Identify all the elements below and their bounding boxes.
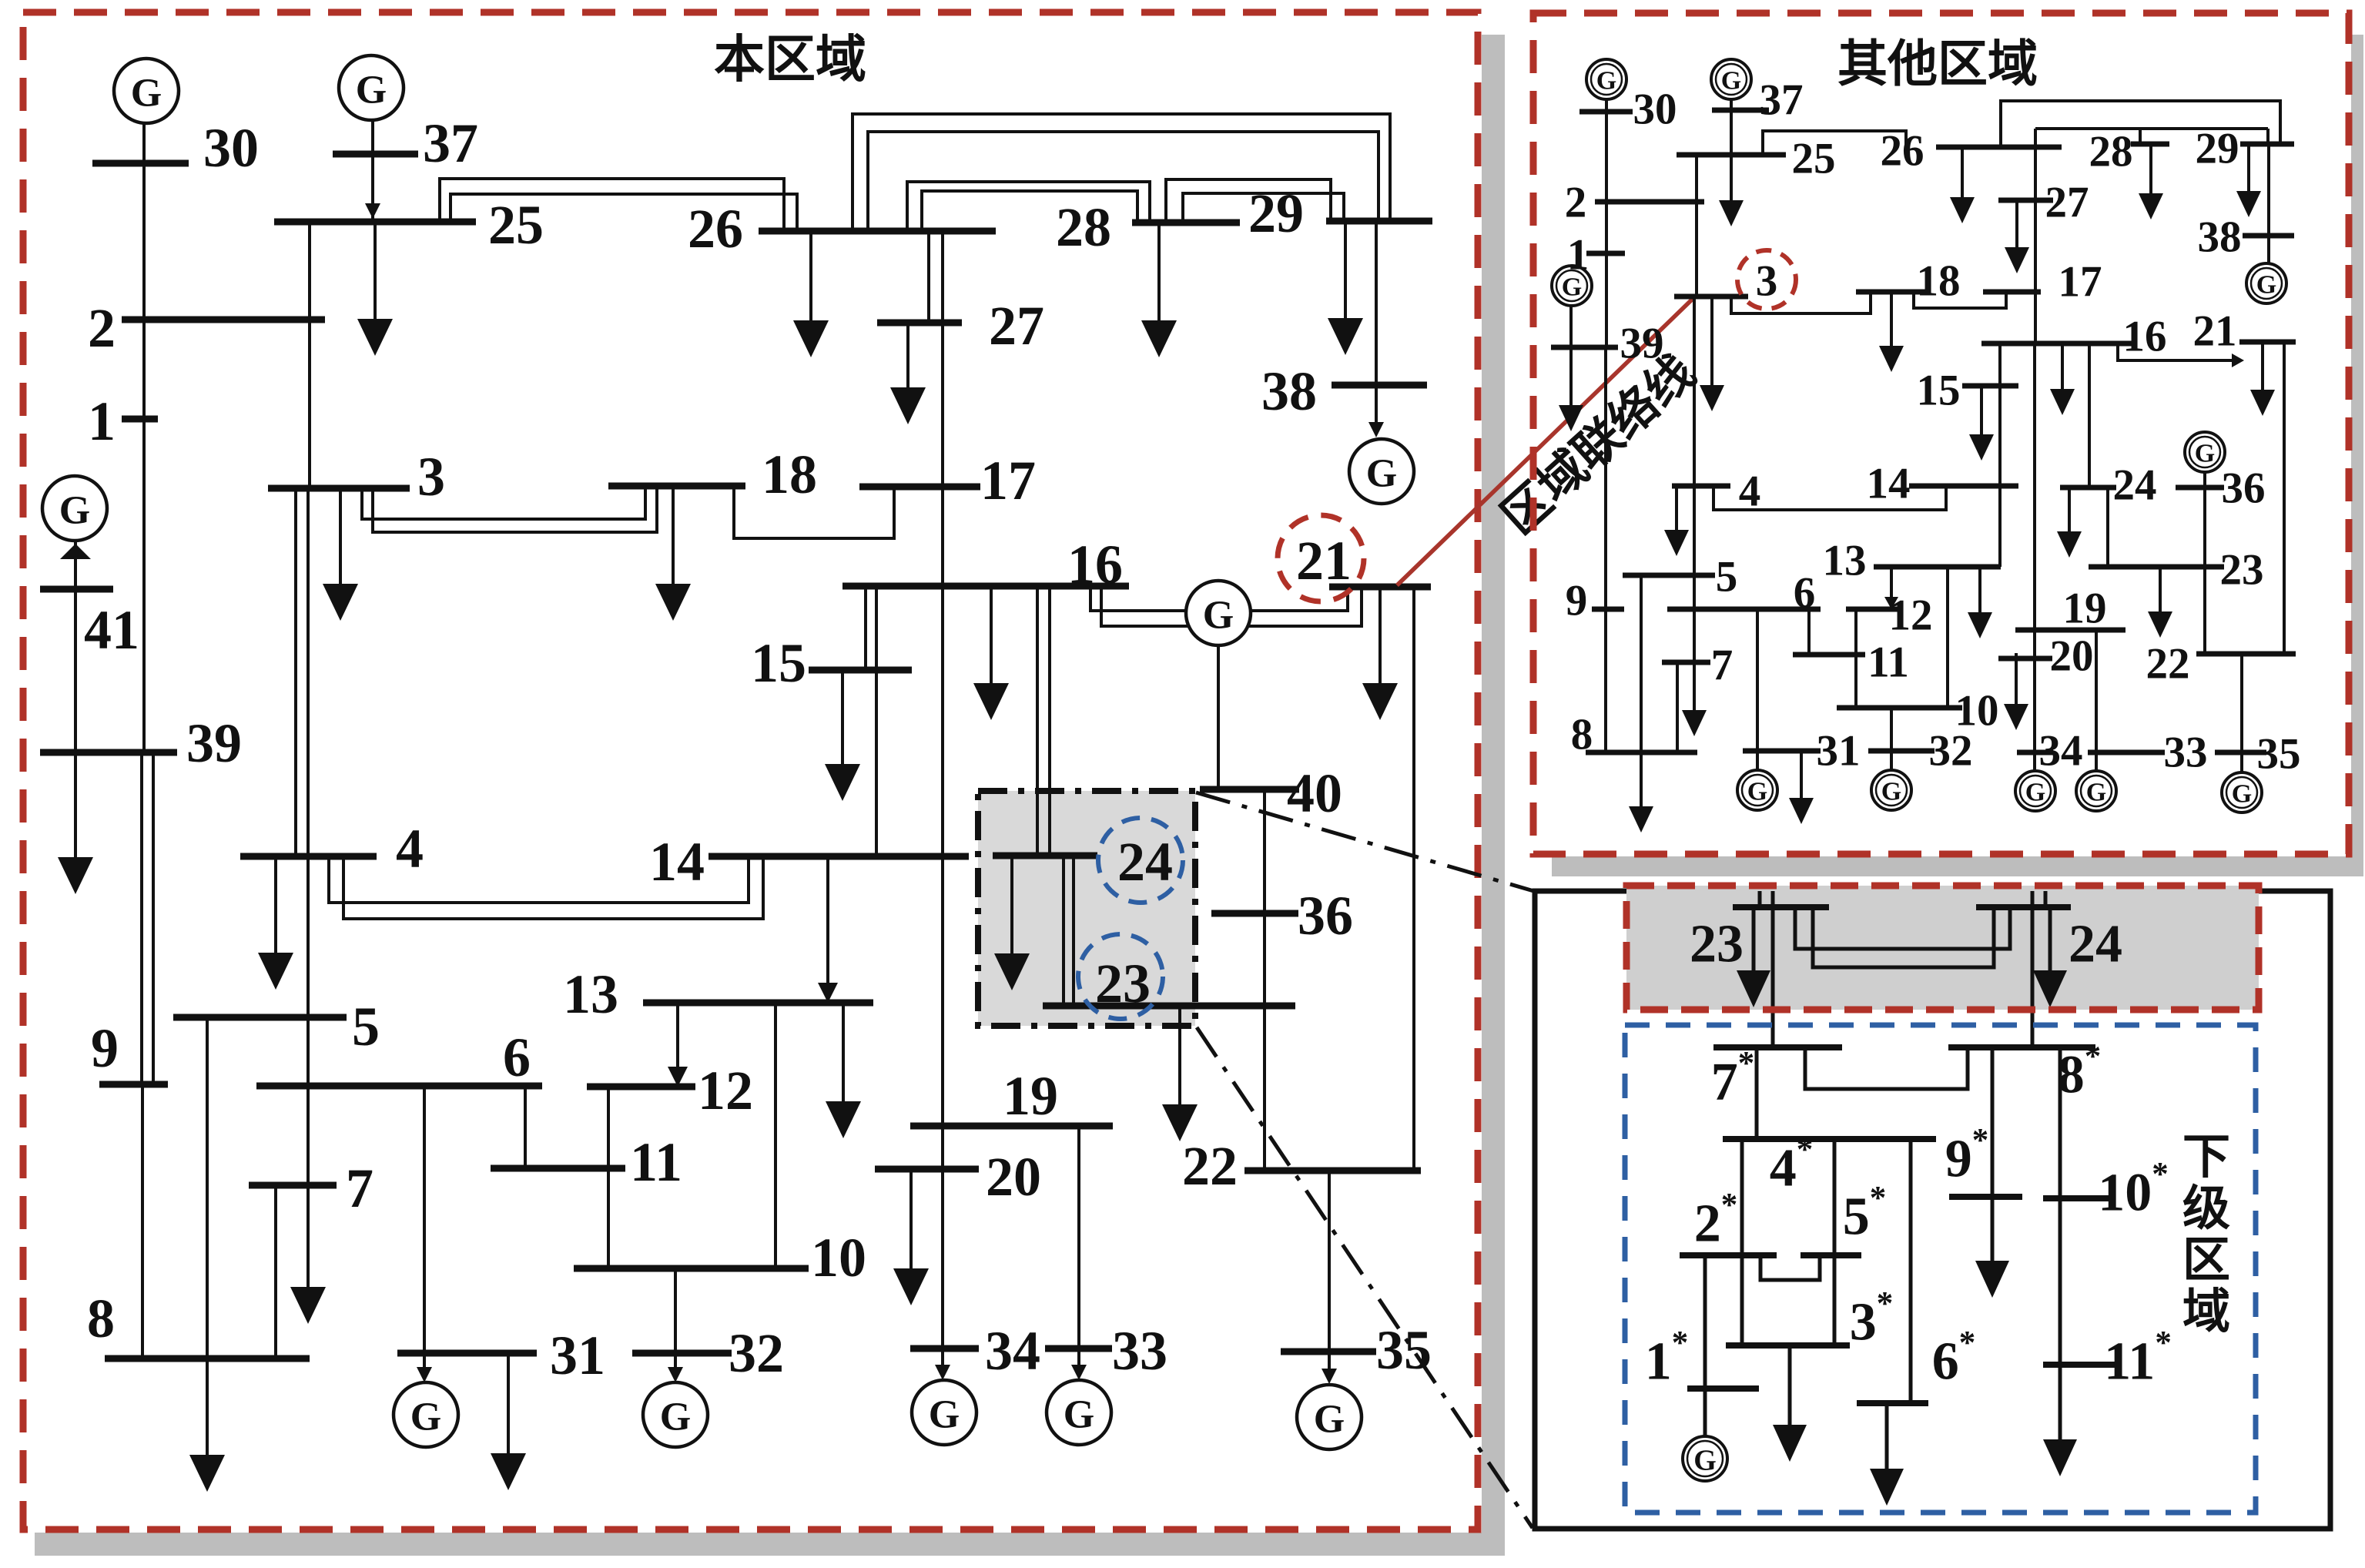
gray band red dashed border bbox=[1626, 886, 2259, 1010]
wire 25-26 circuit a bbox=[440, 179, 784, 231]
svg-text:36: 36 bbox=[1298, 885, 1353, 946]
bus r2 bbox=[1595, 199, 1704, 205]
wire r 24-23 bbox=[2106, 487, 2109, 567]
wire b 2*-5* link bbox=[1760, 1255, 1820, 1280]
red dashed circle around node 21 bbox=[1278, 515, 1364, 601]
load arrow r bus39 load bbox=[1559, 389, 1583, 431]
arrowhead into bus25 from 37 bbox=[365, 203, 380, 219]
bus r39 bbox=[1551, 345, 1618, 350]
arrowhead r arrow 16-21 bbox=[2232, 353, 2244, 367]
svg-text:18: 18 bbox=[1917, 257, 1961, 306]
load arrow b bus23 load bbox=[1737, 907, 1770, 1007]
svg-text:40: 40 bbox=[1287, 762, 1342, 824]
bus 8* bbox=[1948, 1044, 2095, 1050]
svg-text:41: 41 bbox=[84, 599, 139, 661]
load arrow bus13 load bbox=[826, 1003, 861, 1138]
wire 16-24 circuit a bbox=[1036, 586, 1039, 856]
blue dashed border 下级区域 bbox=[1625, 1025, 2256, 1513]
wire b 8*-9* bbox=[1991, 1047, 1995, 1197]
projection line upper (gray box to sub panel) bbox=[1196, 792, 1536, 892]
bus 7* bbox=[1713, 1044, 1842, 1050]
svg-text:38: 38 bbox=[1261, 360, 1317, 422]
svg-text:30: 30 bbox=[1633, 85, 1677, 134]
generator rG30 bbox=[1586, 59, 1626, 99]
load arrow r bus16 load bbox=[2050, 343, 2075, 415]
red dashed circle around node 3 (other region) bbox=[1737, 250, 1796, 309]
bus r27 bbox=[1998, 198, 2053, 203]
gray sub-region box dash-dot border bbox=[978, 791, 1195, 1026]
wire r 25-2-3 spine bbox=[1695, 155, 1698, 297]
svg-text:4: 4 bbox=[396, 818, 424, 879]
wire 28-29 circuit a bbox=[1166, 179, 1331, 223]
load arrow r bus15 load bbox=[1969, 386, 1994, 461]
svg-text:33: 33 bbox=[2164, 729, 2208, 777]
svg-text:37: 37 bbox=[423, 112, 478, 174]
wire 41-39 and load of 39 bbox=[74, 540, 77, 863]
load arrow r bus8 load bbox=[1629, 754, 1653, 833]
load arrow r bus26 load bbox=[1950, 147, 1975, 223]
bus 4* bbox=[1723, 1136, 1936, 1142]
bus 24 bbox=[993, 853, 1097, 859]
svg-text:24: 24 bbox=[2069, 915, 2122, 974]
wire b 8*-10*-11* bbox=[2058, 1047, 2062, 1365]
bus r32 bbox=[1868, 749, 1935, 754]
svg-text:12: 12 bbox=[698, 1060, 753, 1121]
svg-text:31: 31 bbox=[550, 1325, 605, 1386]
generator G35 bbox=[1297, 1385, 1362, 1449]
wire r 25-26 link bbox=[1763, 131, 1906, 155]
svg-text:37: 37 bbox=[1760, 76, 1804, 125]
bus r15 bbox=[1962, 384, 2018, 389]
bus 10* bbox=[2043, 1195, 2115, 1201]
svg-text:16: 16 bbox=[1067, 534, 1123, 595]
bus 2 bbox=[122, 317, 325, 323]
load arrow bus7 load bbox=[290, 1185, 326, 1324]
svg-text:35: 35 bbox=[2257, 730, 2301, 779]
svg-text:34: 34 bbox=[2039, 727, 2083, 776]
bus r24 bbox=[2060, 485, 2116, 491]
generator rG36 bbox=[2185, 432, 2225, 472]
svg-text:29: 29 bbox=[1248, 183, 1304, 244]
load arrow bus29 load bbox=[1328, 221, 1363, 355]
svg-text:10: 10 bbox=[811, 1227, 866, 1288]
wire 4-14 circuit b bbox=[343, 856, 763, 919]
bus 13 bbox=[643, 1000, 873, 1007]
bus r31 bbox=[1743, 749, 1821, 754]
svg-text:20: 20 bbox=[986, 1146, 1041, 1208]
bus 14 bbox=[708, 853, 969, 860]
wire 12-11-10 bbox=[607, 1087, 610, 1268]
load arrow b 9* load bbox=[1975, 1197, 2009, 1298]
wire r 4-14 link bbox=[1713, 486, 1946, 510]
wire 18-17 bbox=[734, 486, 894, 538]
svg-text:其他区域: 其他区域 bbox=[1837, 37, 2038, 92]
wire r 3-18 bbox=[1731, 292, 1871, 313]
svg-text:G: G bbox=[356, 69, 387, 112]
wire b 24 stub up a bbox=[2044, 891, 2048, 907]
wire b 7*-8* link bbox=[1805, 1047, 1968, 1089]
svg-text:15: 15 bbox=[751, 632, 806, 694]
svg-text:G: G bbox=[1693, 1444, 1717, 1476]
bus 31 bbox=[397, 1350, 537, 1357]
wire b 4*-3* left bbox=[1740, 1139, 1744, 1345]
bus 9* bbox=[1949, 1194, 2022, 1200]
svg-text:G: G bbox=[1366, 452, 1397, 496]
bus 20 bbox=[875, 1166, 979, 1173]
load arrow r bus18 load bbox=[1879, 292, 1904, 372]
wire r G36-36-23-22 spine bbox=[2203, 471, 2206, 654]
wire r 16-24 bbox=[2088, 343, 2091, 487]
wire 28-29 circuit b bbox=[1183, 193, 1344, 223]
svg-text:11: 11 bbox=[630, 1131, 682, 1193]
load arrow r bus4 load bbox=[1664, 486, 1689, 556]
bus 5* bbox=[1801, 1252, 1861, 1258]
svg-text:8: 8 bbox=[87, 1288, 115, 1349]
wire r 39-9-8 spine bbox=[1604, 347, 1607, 754]
wire r 7-8 bbox=[1676, 662, 1679, 754]
bus 7 bbox=[249, 1182, 337, 1189]
generator rG32 bbox=[1871, 770, 1911, 810]
svg-text:39: 39 bbox=[1620, 320, 1664, 368]
wire r 13-12 bbox=[1890, 567, 1893, 605]
bus 12 bbox=[587, 1084, 695, 1091]
bus 2* bbox=[1680, 1252, 1777, 1258]
bus 1* bbox=[1687, 1385, 1759, 1392]
projection line lower (gray box to sub panel) bbox=[1197, 1027, 1533, 1528]
arrowhead 14-13 into 13 bbox=[818, 983, 838, 1003]
wire 4-14 circuit a bbox=[329, 856, 749, 903]
arrowhead r arrow 13-12 bbox=[1884, 597, 1898, 609]
svg-text:24: 24 bbox=[2113, 461, 2157, 510]
wire r 6-31 into G31 bbox=[1756, 609, 1759, 770]
generator G33 bbox=[1047, 1380, 1111, 1445]
svg-text:G: G bbox=[59, 489, 90, 533]
load arrow b 3* load bbox=[1773, 1345, 1807, 1462]
wire 26-28 circuit a bbox=[907, 182, 1150, 231]
svg-text:27: 27 bbox=[2045, 179, 2089, 227]
svg-text:19: 19 bbox=[1003, 1065, 1058, 1127]
arrowhead 13-12 into 12 bbox=[668, 1067, 688, 1087]
svg-text:36: 36 bbox=[2222, 464, 2266, 513]
bus 18 bbox=[608, 483, 745, 490]
load arrow bus24 load bbox=[994, 856, 1030, 990]
svg-text:G: G bbox=[2025, 779, 2045, 807]
svg-text:5: 5 bbox=[352, 996, 380, 1057]
wire 3-4 circuit b and 4-5-6-7 bbox=[307, 488, 310, 1185]
generator rG39 bbox=[1552, 266, 1592, 306]
svg-text:21: 21 bbox=[2193, 307, 2237, 356]
arrowhead up into G41 bbox=[60, 544, 91, 559]
svg-text:7: 7 bbox=[1711, 642, 1734, 690]
wire r 28 stub bbox=[2139, 129, 2142, 144]
svg-text:20: 20 bbox=[2050, 632, 2094, 681]
generator rG33 bbox=[2076, 771, 2116, 811]
bus 29 bbox=[1326, 218, 1432, 225]
svg-text:6: 6 bbox=[503, 1027, 531, 1088]
wire r 16-19-20-34 into G34 bbox=[2033, 343, 2036, 771]
svg-text:G: G bbox=[410, 1395, 441, 1439]
bus r37 bbox=[1712, 108, 1769, 113]
bus r33 bbox=[2088, 750, 2165, 756]
bus 34 bbox=[910, 1345, 979, 1352]
bus 11 bbox=[491, 1165, 625, 1172]
wire r 19-33 into G33 bbox=[2095, 630, 2098, 771]
wire b 4*-5*-3* bbox=[1833, 1139, 1837, 1345]
wire 3-4 circuit a bbox=[294, 488, 297, 856]
svg-text:23: 23 bbox=[2220, 546, 2264, 595]
wire b 23-24 circuit a bbox=[1795, 907, 2010, 949]
bus 1 bbox=[122, 416, 158, 423]
bus r3 bbox=[1674, 294, 1748, 300]
wire r 26-27-17-16 spine bbox=[2034, 129, 2037, 343]
wire b 24-8* bbox=[2031, 891, 2035, 1047]
generator G31 bbox=[394, 1382, 458, 1447]
bus 21 bbox=[1329, 584, 1431, 591]
wire r 13-10 bbox=[1946, 567, 1949, 708]
load arrow r bus29 load bbox=[2236, 144, 2261, 217]
bus 30 bbox=[92, 160, 189, 167]
bus 17 bbox=[859, 484, 980, 491]
wire r top line b horizontal bbox=[2035, 127, 2268, 130]
wire 39-9 circuit b bbox=[152, 752, 155, 1084]
load arrow bus21 load bbox=[1362, 587, 1398, 720]
load arrow r bus31 load bbox=[1789, 751, 1814, 824]
bus 15 bbox=[809, 667, 912, 674]
svg-text:19: 19 bbox=[2063, 585, 2107, 633]
wire 25-2-3 bbox=[308, 222, 311, 488]
svg-text:22: 22 bbox=[1182, 1135, 1238, 1197]
generator G30 bbox=[114, 59, 179, 123]
wire 22-35 into G35 bbox=[1328, 1171, 1331, 1380]
svg-text:G: G bbox=[1747, 778, 1767, 806]
bus r18 bbox=[1856, 290, 1925, 295]
svg-text:G: G bbox=[2195, 440, 2215, 468]
bus 16 bbox=[842, 583, 1129, 590]
generator rG37 bbox=[1711, 59, 1751, 99]
wire 3-18 circuit b bbox=[373, 486, 657, 532]
wire 26-27 circuit b and 27-17-16 bbox=[941, 231, 944, 586]
load arrow r bus20 load bbox=[2004, 653, 2028, 730]
bus r9 bbox=[1592, 607, 1624, 612]
wire 26-28 circuit b bbox=[922, 191, 1137, 231]
generator rG34 bbox=[2015, 771, 2055, 811]
wire 26-29 circuit a bbox=[853, 114, 1390, 231]
svg-text:G: G bbox=[660, 1395, 691, 1439]
svg-text:24: 24 bbox=[1117, 831, 1173, 893]
arrowhead into G38 bbox=[1368, 422, 1384, 437]
wire 26-29 circuit b bbox=[868, 132, 1378, 231]
bus r19 bbox=[2015, 628, 2125, 633]
bus 32 bbox=[632, 1350, 732, 1357]
svg-text:2: 2 bbox=[1565, 179, 1587, 227]
svg-text:34: 34 bbox=[985, 1320, 1040, 1382]
bus r17 bbox=[1983, 290, 2041, 295]
bus 3 bbox=[268, 485, 410, 492]
wire 14-13 bbox=[826, 856, 829, 1000]
blue dashed circle around node 23 bbox=[1078, 934, 1163, 1019]
load arrow bus3 load bbox=[323, 488, 358, 621]
svg-text:3: 3 bbox=[417, 446, 445, 508]
load arrow bus15 load bbox=[825, 670, 860, 801]
load arrow r bus24 load bbox=[2057, 487, 2082, 558]
generator G37 bbox=[339, 55, 404, 120]
wire 16-21 circuit a bbox=[1090, 586, 1348, 611]
wire 13-10 bbox=[774, 1003, 777, 1268]
wire r 18-17 bbox=[1914, 292, 2006, 308]
left panel red dashed border 本区域 bbox=[23, 12, 1478, 1529]
load arrow b 6* load bbox=[1870, 1403, 1904, 1506]
svg-text:3: 3 bbox=[1756, 257, 1778, 306]
svg-text:5: 5 bbox=[1716, 553, 1738, 601]
svg-text:G: G bbox=[1596, 67, 1616, 95]
wire r 29-38 into G38 bbox=[2267, 144, 2270, 263]
bus 36 bbox=[1211, 910, 1298, 917]
bus r30 bbox=[1579, 109, 1633, 115]
bus 4 bbox=[240, 853, 377, 860]
svg-text:29: 29 bbox=[2196, 125, 2239, 173]
svg-text:25: 25 bbox=[488, 194, 544, 256]
bus 39 bbox=[40, 749, 177, 756]
svg-text:18: 18 bbox=[762, 444, 817, 505]
svg-text:G: G bbox=[2086, 779, 2106, 807]
svg-text:28: 28 bbox=[2089, 128, 2133, 176]
shadow of other-region panel bbox=[1552, 35, 2363, 876]
svg-text:23: 23 bbox=[1690, 915, 1744, 974]
svg-text:G: G bbox=[1881, 778, 1901, 806]
svg-text:9: 9 bbox=[91, 1017, 119, 1079]
load arrow b bus24 load bbox=[2033, 907, 2067, 1007]
generator bG1* bbox=[1683, 1436, 1727, 1481]
svg-text:9: 9 bbox=[1566, 577, 1588, 625]
arrowhead into G34 bbox=[935, 1365, 950, 1380]
wire 16-15 circuit a bbox=[864, 586, 867, 670]
bus 35 bbox=[1281, 1349, 1376, 1355]
bus r6 bbox=[1667, 607, 1821, 612]
wire r 10-32 into G32 bbox=[1890, 708, 1893, 770]
wire 29-38 and into G bbox=[1375, 221, 1378, 434]
bus b23 bbox=[1733, 904, 1829, 910]
wire r 21-22 bbox=[2283, 342, 2286, 654]
bus r11 bbox=[1793, 652, 1865, 658]
wire 7-8 bbox=[274, 1185, 277, 1359]
svg-text:G: G bbox=[1064, 1393, 1094, 1437]
gray sub-region box fill (left panel) bbox=[978, 791, 1195, 1026]
svg-text:G: G bbox=[1203, 594, 1234, 638]
generator rG38 bbox=[2246, 263, 2286, 303]
other region red dashed border 其他区域 bbox=[1533, 13, 2349, 854]
wire 16-15 circuit b and 15-14 bbox=[875, 586, 878, 856]
wire G30-30-2-1-39 spine bbox=[142, 123, 146, 752]
svg-text:23: 23 bbox=[1095, 953, 1151, 1014]
wire 6-11 bbox=[524, 1086, 527, 1168]
svg-text:25: 25 bbox=[1792, 135, 1836, 183]
wire r 22-35 into G35 bbox=[2240, 654, 2243, 772]
load arrow r bus27 load bbox=[2005, 200, 2029, 273]
wire 13-12 bbox=[676, 1003, 679, 1082]
load arrow bus23 load bbox=[1162, 1006, 1198, 1141]
bus 41 bbox=[40, 586, 113, 593]
bus r36 bbox=[2176, 485, 2224, 491]
bus 11* bbox=[2043, 1362, 2115, 1368]
svg-text:17: 17 bbox=[2058, 258, 2102, 307]
load arrow bus4 load bbox=[258, 856, 293, 990]
svg-text:2: 2 bbox=[88, 297, 116, 359]
svg-text:39: 39 bbox=[186, 712, 242, 774]
generator G34 bbox=[912, 1380, 976, 1445]
wire r 12-11-10 bbox=[1854, 609, 1857, 708]
bus 8 bbox=[105, 1355, 310, 1362]
bus r22 bbox=[2196, 652, 2296, 657]
wire 40-36-23-22 spine bbox=[1263, 789, 1266, 1171]
svg-text:21: 21 bbox=[1296, 530, 1352, 591]
bus 19 bbox=[910, 1123, 1113, 1130]
svg-text:33: 33 bbox=[1112, 1320, 1167, 1382]
bus 37 bbox=[333, 151, 418, 158]
generator rG31 bbox=[1737, 770, 1777, 810]
wire 6-31 and into G31 bbox=[423, 1086, 426, 1379]
bus b24 bbox=[1976, 904, 2071, 910]
load arrow bus16 load bbox=[973, 586, 1009, 720]
load arrow bus26 load bbox=[793, 231, 829, 357]
sub panel black border bbox=[1535, 891, 2330, 1529]
svg-text:G: G bbox=[131, 72, 162, 116]
wire b 23-7* bbox=[1771, 891, 1775, 1047]
svg-text:14: 14 bbox=[1867, 460, 1911, 508]
bus r8 bbox=[1586, 750, 1697, 756]
svg-text:31: 31 bbox=[1817, 727, 1861, 776]
wire 10-32 and into G32 bbox=[674, 1268, 677, 1379]
svg-text:13: 13 bbox=[563, 963, 618, 1025]
generator G40 bbox=[1186, 581, 1251, 645]
generator G38 bbox=[1349, 439, 1414, 504]
generator G32 bbox=[643, 1382, 708, 1447]
gray band fill bbox=[1626, 886, 2259, 1010]
wire 25-26 circuit b bbox=[451, 194, 797, 231]
wire G37-37-25 bbox=[371, 120, 374, 222]
svg-text:22: 22 bbox=[2146, 640, 2190, 689]
svg-text:17: 17 bbox=[980, 450, 1036, 511]
wire r G39-39 and load bbox=[1569, 305, 1573, 389]
load arrow r bus7 load bbox=[1682, 662, 1707, 736]
svg-text:8: 8 bbox=[1571, 711, 1593, 759]
load arrow bus39 load bbox=[58, 857, 93, 894]
bus r21 bbox=[2239, 340, 2296, 345]
wire 9-8 bbox=[141, 1084, 144, 1359]
load arrow bus28 load bbox=[1141, 223, 1177, 357]
wire G40-40 bbox=[1217, 645, 1220, 789]
svg-text:32: 32 bbox=[1929, 727, 1973, 776]
bus 22 bbox=[1244, 1168, 1421, 1174]
svg-text:本区域: 本区域 bbox=[714, 32, 866, 89]
wire 3-18 circuit a bbox=[362, 486, 645, 519]
bus r12 bbox=[1846, 607, 1899, 612]
load arrow bus18 load bbox=[655, 486, 691, 621]
svg-text:6: 6 bbox=[1794, 569, 1816, 618]
bus r4 bbox=[1672, 484, 1730, 489]
bus r29 bbox=[2240, 142, 2294, 147]
bus 10 bbox=[574, 1265, 809, 1272]
svg-text:26: 26 bbox=[1881, 127, 1924, 176]
load arrow bus8 load bbox=[189, 1017, 225, 1492]
load arrow b 11* load bbox=[2043, 1365, 2077, 1476]
svg-text:4: 4 bbox=[1739, 467, 1761, 516]
wire r 16-21 tie bbox=[2118, 343, 2239, 360]
svg-text:7: 7 bbox=[346, 1158, 374, 1219]
load arrow r bus21 load bbox=[2250, 342, 2275, 416]
wire r 16-15-14-13 spine bbox=[1998, 343, 2002, 567]
wire b 7*-4* bbox=[1755, 1047, 1759, 1139]
wire 24-23 circuit a bbox=[1062, 856, 1065, 1006]
